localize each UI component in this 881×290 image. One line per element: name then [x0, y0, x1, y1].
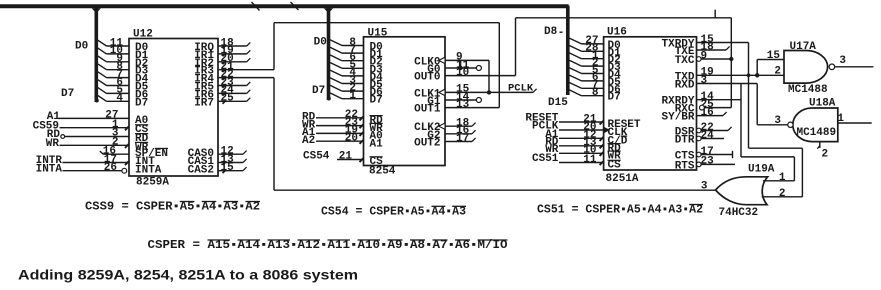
wire: bus fan to U15 pin D4 [330, 70, 342, 76]
svg-text:2: 2 [774, 66, 781, 78]
wire: bus fan to U12 pin D7 [98, 96, 107, 102]
wire: U18A input from serial line [838, 122, 872, 124]
svg-text:17: 17 [456, 133, 469, 145]
wire: bus fan to U16 pin D5 [569, 75, 581, 81]
wire: A2 to U15 A1 [316, 140, 364, 142]
wire: RXRDY stub to riser [697, 99, 742, 101]
svg-text:Adding 8259A, 8254, 8251A to a: Adding 8259A, 8254, 8251A to a 8086 syst… [18, 267, 358, 283]
blob at U12 bus bottom [95, 99, 99, 103]
wire: D0-D7 bus drop to U12 [95, 6, 99, 103]
svg-text:MC1488: MC1488 [788, 84, 828, 96]
junction CLK0/CLK1/PCLK [487, 90, 491, 94]
svg-text:CS54 = CSPER▪A5▪A4▪A3: CS54 = CSPER▪A5▪A4▪A3 [321, 205, 466, 218]
wire: bus fan to U12 pin D3 [98, 64, 107, 70]
svg-text:20: 20 [345, 133, 358, 145]
wire: bus fan to U12 pin D5 [98, 80, 107, 86]
wire: bus fan to U16 pin D6 [569, 83, 581, 89]
junction blob on TXD crossing [747, 73, 751, 77]
wire: A1 to U15 A0 [316, 132, 364, 134]
wire: CAS2 stub [218, 170, 243, 172]
wire: A1 to U16 C/D [559, 137, 604, 139]
wire: TXE stub [697, 49, 727, 51]
svg-text:D7: D7 [370, 95, 383, 107]
wire: bus fan to U16 pin D1 [569, 46, 581, 52]
svg-text:IR7: IR7 [194, 97, 214, 109]
wire: G0 stub with pull terminal [445, 67, 476, 69]
wire: CLK0 loop to PCLK [445, 59, 489, 61]
junction TXD / gate upper input [755, 73, 759, 77]
wire: timer counter-2 stub [445, 125, 472, 127]
svg-text:U15: U15 [368, 27, 388, 39]
svg-text:INTA: INTA [135, 164, 162, 176]
wire: IR3 to OUT1 of 8254 [218, 69, 274, 71]
svg-text:OUT0: OUT0 [414, 72, 440, 84]
wire: CAS1 stub [218, 162, 243, 164]
wire: bus fan to U16 pin D0 [569, 38, 581, 44]
wire: CS59 to U12 CS [60, 127, 130, 129]
IC U16 8251A USART [604, 37, 697, 170]
wire: bus fan to U15 pin D0 [330, 40, 342, 46]
blob at U15 bus bottom [327, 97, 331, 101]
svg-text:8251A: 8251A [606, 173, 639, 185]
wire: IR4 to 74HC32 output [218, 77, 274, 79]
wire: OUT1 to IR3 of 8259A [445, 107, 499, 109]
svg-text:8: 8 [592, 87, 599, 99]
svg-text:D7: D7 [608, 92, 621, 104]
wire: D0-D7 bus drop to U15 [327, 6, 331, 101]
wire: RD to U12 RD [65, 136, 129, 138]
svg-text:9: 9 [701, 50, 708, 62]
wire: U12 IRQ stub [218, 45, 247, 47]
wire: WR to U15 WR [316, 125, 364, 127]
inverting bubble U17A [829, 64, 835, 70]
wire: bus fan to U12 pin D0 [98, 40, 107, 46]
wire: U12 IR2 stub [218, 61, 247, 63]
gate U18A MC1489 line receiver (mirrored) [793, 108, 838, 142]
svg-text:RXD: RXD [675, 80, 695, 92]
svg-text:26: 26 [104, 162, 117, 174]
IC U12 8259A interrupt controller [129, 39, 218, 177]
wire: bus fan to U15 pin D5 [330, 78, 342, 84]
wire: bus fan to U16 pin D2 [569, 53, 581, 59]
junction on G0 [458, 66, 462, 70]
wire: timer counter-2 stub [445, 141, 472, 143]
bubble on U16 DTR pin [697, 136, 702, 141]
svg-text:U18A: U18A [809, 97, 836, 109]
wire: WR to U12 WR [60, 144, 130, 146]
svg-text:OUT1: OUT1 [414, 104, 441, 116]
wire: bus fan to U16 pin D7 [569, 90, 581, 96]
svg-text:CS54: CS54 [303, 151, 330, 163]
svg-text:15: 15 [221, 162, 235, 174]
svg-text:U19A: U19A [748, 163, 775, 175]
wire: U12 IR1 stub [218, 53, 247, 55]
wire: G0 tie to CLK0 [460, 60, 462, 68]
svg-text:SY/BR: SY/BR [662, 112, 695, 124]
svg-text:CS: CS [608, 160, 622, 172]
wire: bus fan to U16 pin D3 [569, 60, 581, 66]
wire: bus fan to U15 pin D6 [330, 85, 342, 91]
wire: U19A input 1 from TXRDY [763, 180, 795, 182]
wire: bus fan to U15 pin D2 [330, 55, 342, 61]
wire: bus fan to U16 pin D4 [569, 68, 581, 74]
wire: SP/EN stub [104, 153, 130, 155]
svg-text:CS51 = CSPER▪A5▪A4▪A3▪A2: CS51 = CSPER▪A5▪A4▪A3▪A2 [537, 204, 703, 217]
svg-text:TXC: TXC [675, 55, 695, 67]
junction TXC [729, 57, 733, 61]
wire: D8-D15 bus drop to U16 [566, 6, 570, 96]
svg-text:OUT2: OUT2 [414, 138, 440, 150]
wire: RXD from MC1489 [697, 83, 758, 85]
svg-text:D8: D8 [544, 26, 558, 38]
bubble on U16 TXC pin [697, 57, 702, 62]
wire: WR to U16 WR [559, 152, 604, 154]
bubble on U16 RXC pin [700, 105, 705, 110]
svg-text:3: 3 [701, 75, 708, 87]
wire: bus fan to U15 pin D3 [330, 63, 342, 69]
gate U17A MC1488 line driver [784, 51, 828, 84]
svg-text:D7: D7 [135, 97, 148, 109]
svg-text:INTA: INTA [36, 163, 63, 175]
svg-text:CS51: CS51 [532, 153, 559, 165]
wire: timer counter-2 stub [445, 133, 472, 135]
wire: U19A input 2 [762, 196, 803, 198]
svg-text:1: 1 [349, 90, 356, 102]
wire: U12 IR7 stub [218, 100, 247, 102]
wire: CS54 to U15 CS [337, 159, 364, 161]
svg-text:11: 11 [583, 154, 597, 166]
open terminal G0 [476, 66, 481, 71]
wire: bus fan to U15 pin D7 [330, 93, 342, 99]
wire: RXD-row riser to 74HC32 input 1 [740, 84, 742, 157]
wire: U17A output [835, 66, 874, 68]
svg-text:CSPER = A15▪A14▪A13▪A12▪A11▪A1: CSPER = A15▪A14▪A13▪A12▪A11▪A10▪A9▪A8▪A7… [148, 239, 508, 252]
svg-text:3: 3 [701, 180, 708, 192]
wire: CS51 to U16 CS [559, 162, 604, 164]
wire: bus fan to U12 pin D2 [98, 56, 107, 62]
wire: slash tick marks on top rail [252, 2, 260, 11]
svg-text:21: 21 [339, 151, 353, 163]
wire: SY/BR stub [697, 115, 724, 117]
svg-text:3: 3 [774, 115, 781, 127]
svg-text:3: 3 [839, 55, 846, 67]
svg-text:U12: U12 [133, 29, 153, 41]
wire: OUT0 to TXC/RXC of 8251A [445, 75, 516, 77]
bubble on U16 CTS pin [697, 152, 702, 157]
wire: RD to U16 RD [559, 145, 604, 147]
svg-text:WR: WR [46, 138, 60, 150]
svg-text:U17A: U17A [790, 41, 817, 53]
wire: U12 IR5 stub [218, 85, 247, 87]
svg-text:2: 2 [779, 188, 786, 200]
svg-text:U16: U16 [607, 26, 627, 38]
wire: A1 to U12 A0 [59, 117, 130, 119]
svg-text:D7: D7 [312, 85, 325, 97]
open terminal G1 [476, 98, 481, 103]
inverting bubble U18A [788, 122, 793, 127]
svg-text:8259A: 8259A [136, 177, 169, 189]
svg-text:MC1489: MC1489 [797, 127, 837, 139]
wire: G1 stub with pull terminal [445, 99, 476, 101]
wire: U12 IR6 stub [218, 92, 247, 94]
svg-text:24: 24 [701, 130, 715, 142]
svg-text:CAS2: CAS2 [188, 164, 214, 176]
svg-text:1: 1 [779, 172, 786, 184]
svg-text:74HC32: 74HC32 [719, 207, 759, 219]
wire: bus fan to U12 pin D4 [98, 72, 107, 78]
wire: CLK1/PCLK [445, 91, 533, 93]
wire: TXD to MC1488 inputs [697, 74, 785, 76]
gate U19A 74HC32 OR (mirrored, points left) [716, 177, 768, 205]
svg-text:PCLK: PCLK [508, 83, 534, 95]
wire: INTR to U12 INT [63, 162, 130, 164]
wire: IR4 riser to 74HC32 output [273, 78, 275, 191]
bubble on U16 DSR pin [697, 128, 702, 133]
svg-text:DTR: DTR [675, 135, 695, 147]
wire: PCLK to U16 CLK [559, 129, 604, 131]
svg-text:1: 1 [837, 113, 844, 125]
svg-text:23: 23 [701, 156, 715, 168]
svg-text:D7: D7 [61, 88, 74, 100]
bubble on U16 RTS pin [697, 162, 702, 167]
wire: INTA to U12 INTA [63, 170, 122, 172]
svg-text:CSS9 = CSPER▪A5▪A4▪A3▪A2: CSS9 = CSPER▪A5▪A4▪A3▪A2 [85, 201, 260, 214]
wire: TXRDY to 74HC32 input 2 [697, 42, 749, 44]
svg-text:D0: D0 [75, 41, 88, 53]
svg-text:2: 2 [822, 149, 829, 161]
svg-text:A1: A1 [370, 138, 384, 150]
svg-text:A2: A2 [302, 135, 315, 147]
wire: U18A pin 2 response control stub [819, 142, 821, 148]
wire: CAS0 stub [218, 153, 243, 155]
wire: main data-bus top rail [0, 4, 569, 8]
wire: RESET to U16 RESET [559, 121, 604, 123]
svg-text:D0: D0 [314, 36, 327, 48]
svg-text:15: 15 [767, 50, 781, 62]
svg-text:RTS: RTS [675, 160, 695, 172]
wire: bus fan to U12 pin D1 [98, 48, 107, 54]
IC U15 8254 timer [364, 37, 446, 166]
svg-text:CS: CS [370, 156, 384, 168]
wire: bus fan to U12 pin D6 [98, 88, 107, 94]
bubble on U12 INTA pin [122, 168, 127, 173]
wire: bus fan to U15 pin D1 [330, 47, 342, 53]
wire: RD to U15 RD [316, 117, 364, 119]
svg-text:D15: D15 [548, 97, 568, 109]
svg-text:4: 4 [116, 93, 123, 105]
